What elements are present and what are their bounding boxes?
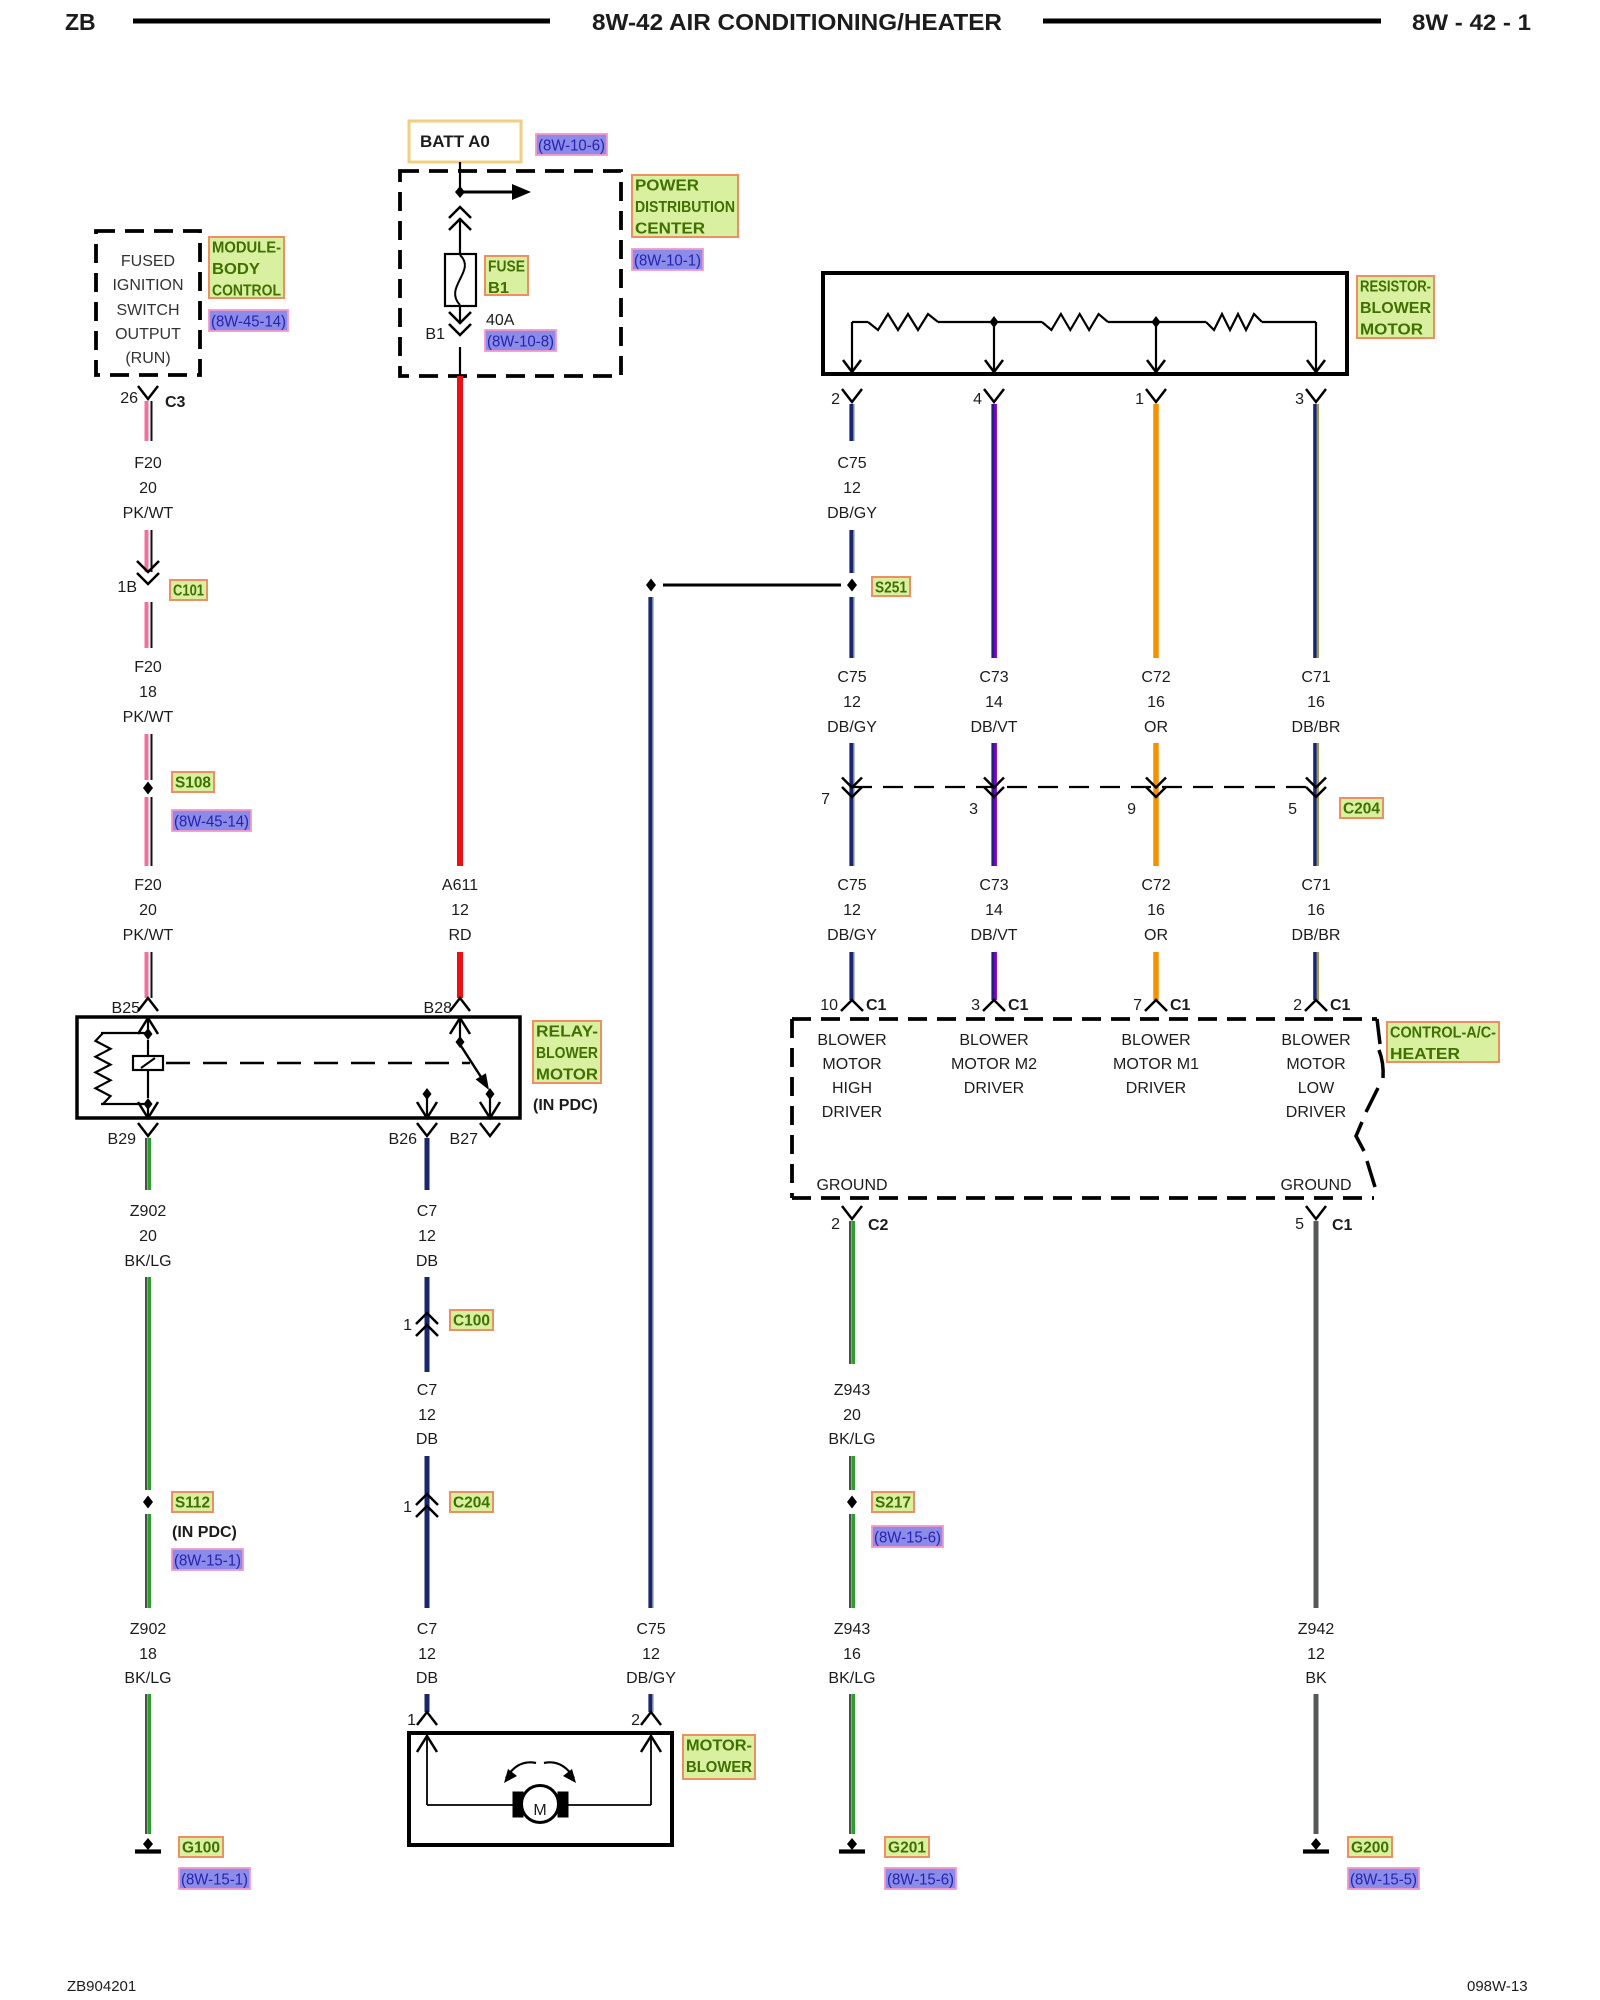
svg-text:2: 2: [831, 391, 840, 408]
svg-text:MOTOR: MOTOR: [1286, 1056, 1345, 1073]
wire C75 segment: [648, 1694, 652, 1712]
svg-text:DB/VT: DB/VT: [970, 927, 1017, 944]
ground G201: [847, 1838, 857, 1850]
svg-text:DRIVER: DRIVER: [964, 1080, 1024, 1097]
connector C1 pin 2: [1305, 1000, 1327, 1011]
relay pin B26 arrow: [426, 1098, 428, 1118]
svg-text:CONTROL: CONTROL: [212, 283, 281, 300]
svg-text:5: 5: [1288, 801, 1297, 818]
wire F20 segment: [145, 602, 149, 648]
svg-text:12: 12: [1307, 1646, 1325, 1663]
control box torn edge: [1377, 1019, 1380, 1044]
motor pin 2 arrow: [641, 1736, 661, 1752]
svg-text:SWITCH: SWITCH: [116, 302, 179, 319]
label MODULE-BODY CONTROL: [209, 237, 284, 298]
svg-text:(8W-15-6): (8W-15-6): [887, 1872, 954, 1889]
svg-text:C1: C1: [1332, 1217, 1353, 1234]
svg-text:C71: C71: [1301, 669, 1330, 686]
splice S251 node left: [646, 579, 656, 592]
svg-text:12: 12: [843, 480, 861, 497]
label POWER DISTRIBUTION CENTER: [632, 175, 738, 237]
node resistor bus A: [990, 316, 999, 328]
svg-text:12: 12: [642, 1646, 660, 1663]
label C100: [450, 1310, 493, 1330]
label C204 center: [450, 1492, 493, 1512]
svg-text:C204: C204: [453, 1495, 490, 1512]
resistor box: [823, 273, 1347, 374]
svg-text:18: 18: [139, 684, 157, 701]
connector C204 chevrons col4: [1306, 787, 1326, 797]
svg-text:098W-13: 098W-13: [1467, 1978, 1528, 1995]
svg-text:MODULE-: MODULE-: [212, 240, 281, 257]
connector C101 chevrons: [137, 573, 159, 584]
svg-text:RD: RD: [448, 927, 471, 944]
svg-text:HIGH: HIGH: [832, 1080, 872, 1097]
svg-text:BLOWER: BLOWER: [1281, 1032, 1350, 1049]
svg-text:DISTRIBUTION: DISTRIBUTION: [635, 199, 735, 216]
relay switch arm: [461, 1046, 481, 1077]
svg-text:Z942: Z942: [1298, 1621, 1335, 1638]
svg-text:12: 12: [451, 902, 469, 919]
svg-text:16: 16: [843, 1646, 861, 1663]
resistor pin 4 arrow: [993, 322, 995, 371]
svg-text:C3: C3: [165, 394, 186, 411]
label (8W-15-6) S217: [872, 1526, 943, 1547]
svg-text:C7: C7: [417, 1382, 438, 1399]
svg-text:(8W-10-1): (8W-10-1): [634, 253, 701, 270]
svg-text:MOTOR: MOTOR: [822, 1056, 881, 1073]
svg-text:12: 12: [418, 1646, 436, 1663]
connector motor pin 1: [417, 1712, 437, 1725]
svg-text:DB/VT: DB/VT: [970, 719, 1017, 736]
wire Z943 segment: [849, 1456, 851, 1490]
svg-text:MOTOR: MOTOR: [536, 1067, 598, 1084]
svg-text:Z943: Z943: [834, 1382, 871, 1399]
connector resistor pin 3: [1306, 389, 1326, 402]
svg-text:OR: OR: [1144, 927, 1168, 944]
svg-text:RESISTOR-: RESISTOR-: [1360, 279, 1431, 296]
svg-text:DRIVER: DRIVER: [1126, 1080, 1186, 1097]
connector C1 pin 10: [841, 1000, 863, 1011]
connector B29: [138, 1123, 158, 1136]
feed arrow to other circuits: [460, 191, 512, 194]
label FUSE B1: [485, 256, 528, 295]
node PDC feed junction: [455, 186, 465, 198]
svg-text:Z943: Z943: [834, 1621, 871, 1638]
label (8W-10-8): [485, 330, 556, 351]
svg-text:OR: OR: [1144, 719, 1168, 736]
svg-text:DB/GY: DB/GY: [626, 1670, 676, 1687]
control box: [792, 1017, 1377, 1021]
svg-text:12: 12: [843, 694, 861, 711]
connector resistor pin 2: [842, 389, 862, 402]
wire Z902 segment: [145, 1277, 147, 1490]
motor box: [409, 1733, 672, 1845]
connector C204 chevrons col1: [842, 787, 862, 797]
svg-text:PK/WT: PK/WT: [123, 927, 174, 944]
svg-text:GROUND: GROUND: [816, 1177, 887, 1194]
wire C7 segment: [425, 1456, 430, 1608]
relay pin B28 arrow: [450, 1018, 470, 1034]
svg-text:(RUN): (RUN): [125, 350, 170, 367]
battery feed box BATT A0: [409, 121, 521, 162]
wire C7 segment: [425, 1694, 430, 1712]
svg-text:C72: C72: [1141, 877, 1170, 894]
wire F20 segment: [145, 530, 149, 572]
wire C73 segment: [991, 743, 994, 866]
label (8W-45-14) at S108: [172, 810, 251, 831]
connector B25: [138, 998, 158, 1011]
svg-text:1: 1: [407, 1712, 416, 1729]
svg-text:F20: F20: [134, 877, 162, 894]
svg-text:DB: DB: [416, 1670, 438, 1687]
label (8W-15-1) S112: [172, 1549, 243, 1570]
svg-text:DRIVER: DRIVER: [822, 1104, 882, 1121]
svg-text:C73: C73: [979, 669, 1008, 686]
motor rotation arrows: [506, 1762, 536, 1778]
svg-text:BLOWER: BLOWER: [536, 1045, 598, 1062]
node relay coil bottom: [144, 1098, 153, 1110]
resistor R2: [1042, 314, 1108, 330]
svg-text:12: 12: [418, 1228, 436, 1245]
svg-text:LOW: LOW: [1298, 1080, 1335, 1097]
splice S112: [143, 1496, 153, 1509]
svg-text:MOTOR M2: MOTOR M2: [951, 1056, 1037, 1073]
label S251: [872, 577, 910, 596]
wire A611 segment: [457, 952, 463, 998]
svg-text:B27: B27: [450, 1131, 479, 1148]
svg-text:BLOWER: BLOWER: [1360, 300, 1431, 317]
svg-text:S217: S217: [875, 1495, 911, 1512]
svg-text:DRIVER: DRIVER: [1286, 1104, 1346, 1121]
svg-text:18: 18: [139, 1646, 157, 1663]
fuse B1: [445, 254, 476, 306]
svg-text:(8W-45-14): (8W-45-14): [211, 314, 286, 331]
label G201: [885, 1837, 929, 1857]
motor pin 1 arrow: [417, 1736, 437, 1752]
svg-text:8W-42 AIR CONDITIONING/HEATER: 8W-42 AIR CONDITIONING/HEATER: [592, 9, 1002, 35]
svg-text:7: 7: [1133, 997, 1142, 1014]
svg-text:(8W-15-5): (8W-15-5): [1350, 1872, 1417, 1889]
svg-text:MOTOR-: MOTOR-: [686, 1738, 752, 1755]
wire motor internal left: [426, 1736, 428, 1805]
svg-text:BODY: BODY: [212, 261, 260, 278]
svg-text:C75: C75: [837, 455, 866, 472]
resistor R3: [1206, 314, 1262, 330]
svg-text:12: 12: [418, 1407, 436, 1424]
svg-text:G100: G100: [182, 1840, 220, 1857]
svg-text:3: 3: [969, 801, 978, 818]
svg-text:A611: A611: [442, 877, 478, 894]
label RELAY-BLOWER MOTOR: [533, 1021, 601, 1083]
svg-text:2: 2: [1293, 997, 1302, 1014]
wire Z902 segment: [145, 1694, 147, 1834]
svg-text:3: 3: [971, 997, 980, 1014]
svg-text:PK/WT: PK/WT: [123, 505, 174, 522]
header rule right: [1043, 19, 1381, 24]
connector B26: [417, 1123, 437, 1136]
label (8W-10-1): [632, 249, 703, 270]
svg-text:2: 2: [831, 1216, 840, 1233]
wire C7 segment: [425, 1277, 430, 1372]
svg-text:1: 1: [403, 1499, 412, 1516]
wire C75 segment: [849, 743, 853, 866]
svg-text:RELAY-: RELAY-: [536, 1024, 598, 1041]
motor M1: [522, 1786, 559, 1823]
svg-text:C7: C7: [417, 1203, 438, 1220]
svg-text:40A: 40A: [486, 312, 515, 329]
wire Z943 segment: [849, 1694, 851, 1834]
svg-text:C75: C75: [837, 669, 866, 686]
svg-text:3: 3: [1295, 391, 1304, 408]
label MOTOR-BLOWER: [683, 1735, 755, 1779]
svg-text:S251: S251: [875, 580, 907, 597]
fused ignition switch output box: [96, 231, 200, 375]
svg-text:20: 20: [843, 1407, 861, 1424]
svg-text:26: 26: [120, 390, 138, 407]
label C204: [1340, 798, 1383, 818]
wire C71 segment: [1313, 404, 1317, 658]
wire junction to fuse: [459, 219, 461, 255]
wire Z942 segment: [1314, 1221, 1319, 1608]
connector C204 chevrons col2: [984, 787, 1004, 797]
label S217: [872, 1492, 914, 1512]
svg-text:B29: B29: [108, 1131, 137, 1148]
wire C75 segment: [849, 530, 853, 573]
wire A611 segment: [457, 376, 463, 866]
svg-text:BLOWER: BLOWER: [686, 1759, 752, 1776]
label C101: [170, 580, 207, 600]
svg-text:C75: C75: [837, 877, 866, 894]
svg-text:HEATER: HEATER: [1390, 1046, 1460, 1063]
svg-text:1: 1: [403, 1317, 412, 1334]
motor brush right: [558, 1792, 568, 1817]
svg-text:C2: C2: [868, 1217, 889, 1234]
relay resistor: [101, 1032, 148, 1034]
svg-text:C100: C100: [453, 1313, 490, 1330]
relay dashed link: [166, 1062, 470, 1065]
svg-text:DB/GY: DB/GY: [827, 927, 877, 944]
svg-text:BK/LG: BK/LG: [124, 1670, 171, 1687]
wire motor internal right: [650, 1736, 652, 1805]
svg-text:BLOWER: BLOWER: [817, 1032, 886, 1049]
svg-text:S108: S108: [175, 775, 211, 792]
svg-text:PK/WT: PK/WT: [123, 709, 174, 726]
svg-text:C1: C1: [1008, 997, 1029, 1014]
svg-text:B28: B28: [424, 1000, 453, 1017]
svg-text:G201: G201: [888, 1840, 926, 1857]
svg-text:S112: S112: [175, 1495, 210, 1512]
svg-text:(8W-15-1): (8W-15-1): [174, 1553, 241, 1570]
svg-text:B25: B25: [112, 1000, 141, 1017]
wire C72 segment: [1153, 952, 1159, 1000]
svg-text:OUTPUT: OUTPUT: [115, 326, 181, 343]
svg-text:BLOWER: BLOWER: [1121, 1032, 1190, 1049]
label S108: [172, 772, 214, 792]
resistor pin 1 arrow: [1155, 322, 1157, 371]
svg-text:BK/LG: BK/LG: [828, 1431, 875, 1448]
label (8W-10-6): [536, 134, 607, 155]
svg-text:BLOWER: BLOWER: [959, 1032, 1028, 1049]
svg-text:(8W-10-6): (8W-10-6): [538, 138, 605, 155]
svg-text:1: 1: [1135, 391, 1144, 408]
label (8W-45-14): [209, 310, 288, 331]
svg-text:9: 9: [1127, 801, 1136, 818]
svg-text:14: 14: [985, 902, 1003, 919]
svg-text:C101: C101: [173, 583, 204, 600]
svg-text:DB/GY: DB/GY: [827, 505, 877, 522]
svg-text:B1: B1: [425, 326, 445, 343]
svg-text:C1: C1: [1330, 997, 1351, 1014]
connector C1 pin 5: [1306, 1206, 1326, 1219]
svg-text:FUSE: FUSE: [488, 259, 525, 276]
resistor R1: [868, 314, 938, 330]
connector B27: [480, 1123, 500, 1136]
connector C2 pin 2: [842, 1206, 862, 1219]
wire Z942 segment: [1314, 1694, 1319, 1834]
svg-text:(IN PDC): (IN PDC): [172, 1524, 237, 1541]
relay pin B29 arrow: [147, 1104, 149, 1118]
svg-text:B1: B1: [488, 280, 509, 297]
svg-text:16: 16: [1307, 694, 1325, 711]
ground G200: [1311, 1838, 1321, 1850]
motor brush left: [513, 1792, 523, 1817]
svg-text:B26: B26: [389, 1131, 418, 1148]
svg-text:F20: F20: [134, 455, 162, 472]
wire C75 segment: [849, 597, 853, 658]
node relay coil top: [144, 1028, 153, 1040]
wire Z902 segment: [145, 1514, 147, 1608]
svg-text:20: 20: [139, 1228, 157, 1245]
svg-text:F20: F20: [134, 659, 162, 676]
svg-text:ZB: ZB: [65, 9, 96, 35]
label RESISTOR-BLOWER MOTOR: [1357, 276, 1434, 338]
svg-text:16: 16: [1307, 902, 1325, 919]
wire F20 segment: [145, 952, 149, 998]
node relay switch contact: [486, 1088, 495, 1100]
resistor pin 2 arrow: [851, 322, 853, 371]
svg-text:12: 12: [843, 902, 861, 919]
svg-text:(8W-45-14): (8W-45-14): [174, 814, 249, 831]
connector chevrons PDC feed: [449, 207, 471, 218]
splice S108: [143, 782, 153, 795]
wire C73 segment: [991, 404, 994, 658]
wire C75 segment: [849, 404, 853, 441]
connector C204 chevrons col3: [1146, 787, 1166, 797]
label (8W-15-6) G201: [885, 1868, 956, 1889]
svg-text:(8W-15-6): (8W-15-6): [874, 1530, 941, 1547]
svg-text:C7: C7: [417, 1621, 438, 1638]
power distribution center box: [400, 171, 621, 376]
label (8W-15-1) G100: [179, 1868, 250, 1889]
svg-text:8W - 42 - 1: 8W - 42 - 1: [1412, 10, 1531, 35]
svg-text:BK/LG: BK/LG: [828, 1670, 875, 1687]
svg-text:MOTOR: MOTOR: [1360, 322, 1423, 339]
svg-text:Z902: Z902: [130, 1203, 167, 1220]
wire C73 segment: [991, 952, 994, 1000]
wire C71 segment: [1313, 743, 1317, 866]
wire F20 segment: [145, 734, 149, 780]
svg-text:ZB904201: ZB904201: [67, 1978, 136, 1995]
svg-text:DB/BR: DB/BR: [1292, 719, 1341, 736]
wire resistor bus: [852, 321, 868, 323]
svg-text:20: 20: [139, 480, 157, 497]
label CONTROL-A/C-HEATER: [1387, 1022, 1499, 1062]
svg-text:C73: C73: [979, 877, 1008, 894]
wire F20 segment: [145, 401, 149, 441]
svg-text:(8W-15-1): (8W-15-1): [181, 1872, 248, 1889]
label G200: [1348, 1837, 1392, 1857]
svg-text:G200: G200: [1351, 1840, 1389, 1857]
svg-text:DB: DB: [416, 1431, 438, 1448]
connector B28: [450, 998, 470, 1011]
svg-text:C75: C75: [636, 1621, 665, 1638]
svg-text:14: 14: [985, 694, 1003, 711]
relay box: [77, 1017, 520, 1118]
wire Z902 segment: [145, 1138, 147, 1190]
wire C71 segment: [1313, 952, 1317, 1000]
svg-text:16: 16: [1147, 694, 1165, 711]
svg-text:C1: C1: [866, 997, 887, 1014]
wire F20 segment: [145, 797, 149, 866]
svg-text:10: 10: [820, 997, 838, 1014]
connector C3: [138, 386, 158, 399]
svg-text:CONTROL-A/C-: CONTROL-A/C-: [1390, 1025, 1496, 1042]
wire BATT A0 feed: [459, 162, 461, 192]
svg-text:BK: BK: [1305, 1670, 1327, 1687]
svg-text:C71: C71: [1301, 877, 1330, 894]
node relay pin B26: [423, 1088, 432, 1100]
svg-text:(8W-10-8): (8W-10-8): [487, 334, 554, 351]
wire C72 segment: [1153, 404, 1159, 658]
connector resistor pin 4: [984, 389, 1004, 402]
node resistor bus B: [1152, 316, 1161, 328]
ground G100: [143, 1838, 153, 1850]
svg-text:BATT A0: BATT A0: [420, 132, 490, 151]
svg-text:C204: C204: [1343, 801, 1380, 818]
label S112: [172, 1492, 213, 1512]
svg-text:5: 5: [1295, 1216, 1304, 1233]
svg-text:16: 16: [1147, 902, 1165, 919]
label G100: [179, 1837, 223, 1857]
resistor pin 3 arrow: [1315, 322, 1317, 371]
connector C204 chevrons: [416, 1494, 438, 1505]
wire C75 segment: [648, 597, 652, 1608]
wire C72 segment: [1153, 743, 1159, 866]
svg-text:DB/BR: DB/BR: [1292, 927, 1341, 944]
connector resistor pin 1: [1146, 389, 1166, 402]
relay coil: [147, 1040, 149, 1056]
relay pin B25 arrow: [138, 1018, 158, 1034]
svg-text:1B: 1B: [117, 579, 137, 596]
svg-text:C1: C1: [1170, 997, 1191, 1014]
svg-text:POWER: POWER: [635, 178, 699, 195]
wire fuse to pin B1: [459, 306, 461, 324]
wire S251 link: [663, 584, 841, 587]
svg-text:(IN PDC): (IN PDC): [533, 1097, 598, 1114]
wire Z943 segment: [849, 1514, 851, 1608]
wire C7 segment: [425, 1138, 430, 1190]
label (8W-15-5) G200: [1348, 1868, 1419, 1889]
svg-text:Z902: Z902: [130, 1621, 167, 1638]
wire B1 to PDC edge: [459, 347, 461, 376]
svg-text:M: M: [533, 1802, 546, 1819]
connector motor pin 2: [641, 1712, 661, 1725]
connector C1 pin 7: [1145, 1000, 1167, 1011]
svg-text:4: 4: [973, 391, 982, 408]
svg-text:BK/LG: BK/LG: [124, 1253, 171, 1270]
wire C75 segment: [849, 952, 853, 1000]
